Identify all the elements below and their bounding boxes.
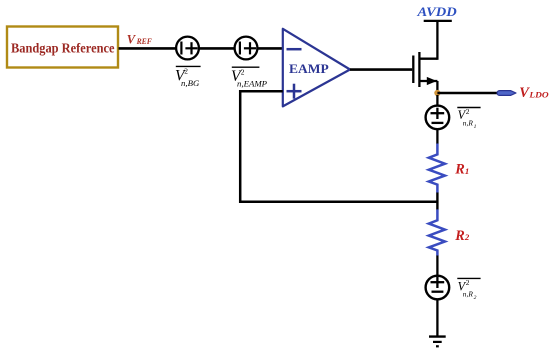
resistor R1 [429,144,470,193]
svg-text:2: 2 [241,67,245,76]
svg-text:1: 1 [465,166,469,176]
wire (output node to noise source Vn,R1) [436,95,438,106]
noise source Vn,EAMP (circle with - + polarity) [235,37,258,60]
svg-text:R: R [454,228,465,244]
svg-text:2: 2 [184,66,188,75]
svg-text:n,R: n,R [463,118,474,127]
bandgap reference box [7,27,118,68]
noise source Vn,BG (circle with - + polarity) [176,37,199,60]
svg-text:Bandgap Reference: Bandgap Reference [11,41,115,56]
wire (resistor R2 to noise source Vn,R2) [436,256,438,277]
svg-text:n,BG: n,BG [181,78,200,88]
label Vn,EAMP squared (with overline) [231,67,268,88]
node VREF label [127,33,152,47]
ground [429,337,446,347]
node feedback (junction between R1 and R2) [436,193,438,210]
label Vn,BG squared (with overline) [175,66,201,87]
noise source Vn,R1 (circle with + - polarity) [426,106,450,130]
node output (junction dot) [434,90,440,96]
svg-text:R: R [454,162,465,178]
svg-text:EAMP: EAMP [289,62,329,76]
svg-text:2: 2 [474,295,477,301]
wire VREF (box to noise source Vn,BG) [119,47,177,50]
svg-text:2: 2 [466,278,470,287]
power rail AVDD [416,4,457,21]
op-amp U1 EAMP [283,29,350,107]
svg-text:2: 2 [464,232,470,242]
svg-text:LDO: LDO [528,89,549,99]
label Vn,R2 squared (with overline) [457,278,480,301]
resistor R2 [429,209,470,255]
label Vn,R1 squared (with overline) [457,107,480,130]
pin VLDO (block arrow) [497,91,516,96]
wire (output node to VLDO pin) [437,92,498,95]
svg-text:n,R: n,R [463,290,474,299]
transistor Q1 PMOS pass device [413,20,437,91]
svg-text:REF: REF [136,36,152,46]
svg-text:1: 1 [474,124,477,130]
svg-text:AVDD: AVDD [416,4,457,19]
node VLDO label [519,85,549,101]
noise source Vn,R2 (circle with + - polarity) [426,276,450,300]
wire (Vn,BG to Vn,EAMP) [199,47,235,50]
wire feedback (junction to op-amp non-inverting input) [240,91,437,202]
svg-text:2: 2 [466,107,470,116]
wire (op-amp output to pass transistor gate) [350,68,412,71]
wire (Vn,EAMP to op-amp inverting input) [257,47,283,50]
wire (noise source Vn,R2 to ground) [436,299,438,336]
wire (noise source Vn,R1 to resistor R1) [436,129,438,144]
svg-text:V: V [127,33,137,47]
svg-text:n,EAMP: n,EAMP [237,78,268,88]
